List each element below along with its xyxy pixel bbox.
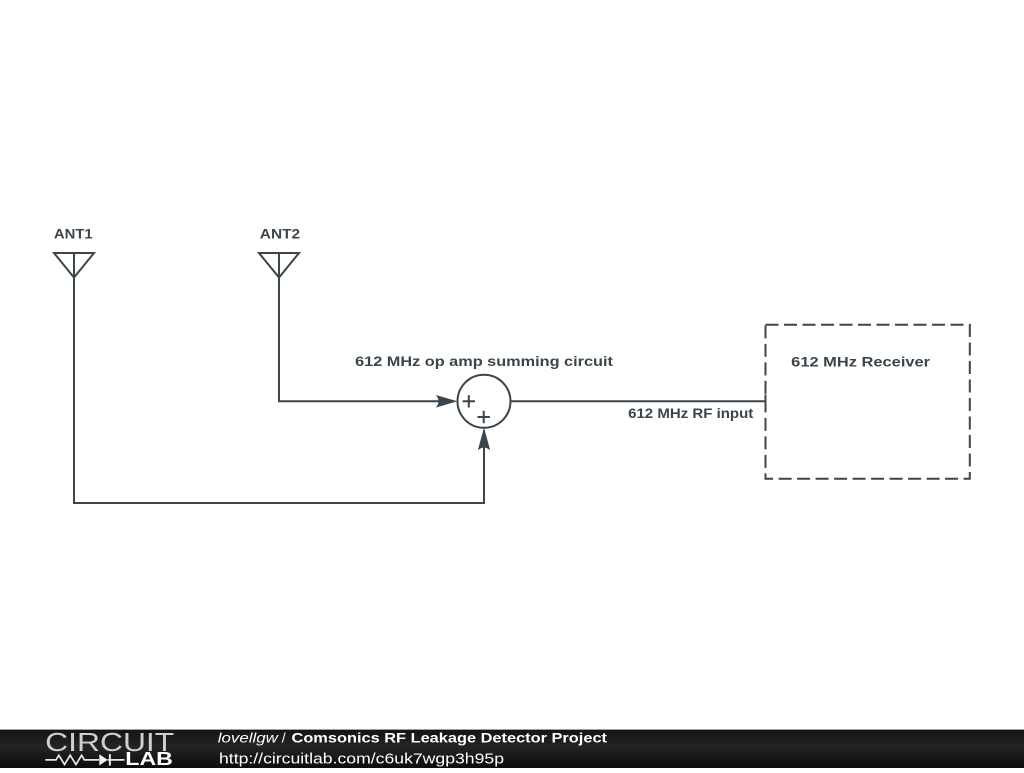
footer bar (0, 730, 1024, 768)
wire summing node to receiver (511, 400, 766, 402)
svg-text:612 MHz RF input: 612 MHz RF input (628, 405, 754, 421)
svg-text:ANT1: ANT1 (54, 225, 93, 241)
antenna ANT2 (259, 253, 299, 278)
svg-text:612 MHz op amp summing circuit: 612 MHz op amp summing circuit (355, 353, 613, 369)
arrowhead into summing node bottom (478, 428, 490, 451)
wire from ANT1 to summing node (74, 278, 484, 504)
svg-text:http://circuitlab.com/c6uk7wgp: http://circuitlab.com/c6uk7wgp3h95p (219, 750, 504, 767)
svg-text:Comsonics RF Leakage Detector: Comsonics RF Leakage Detector Project (292, 730, 608, 746)
CircuitLab logo schematic doodle (wire, resistor, diode) (45, 754, 124, 766)
svg-text:lovellgw: lovellgw (218, 730, 279, 746)
arrowhead into summing node left (436, 395, 458, 408)
plus sign input 1 (463, 395, 475, 407)
svg-text:612 MHz Receiver: 612 MHz Receiver (791, 353, 931, 369)
op-amp summing junction U1 (458, 375, 511, 428)
antenna ANT1 (54, 253, 94, 278)
receiver box (dashed) (766, 325, 970, 479)
wire from ANT2 to summing node (279, 278, 440, 402)
plus sign input 2 (478, 411, 490, 423)
svg-text:ANT2: ANT2 (260, 225, 301, 241)
svg-text:LAB: LAB (125, 749, 173, 768)
svg-text:/: / (282, 730, 286, 746)
receiver pin tick (765, 395, 767, 411)
